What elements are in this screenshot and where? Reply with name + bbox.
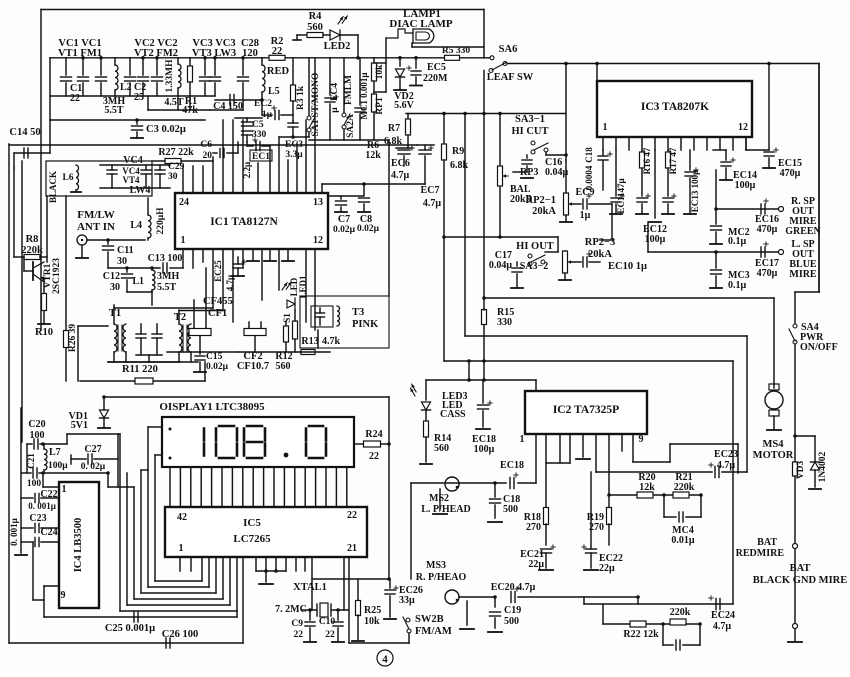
capacitor EC10 1u xyxy=(582,257,584,267)
svg-text:22μ: 22μ xyxy=(599,563,615,574)
capacitor C10 22 xyxy=(337,610,339,620)
svg-text:C3 0.02μ: C3 0.02μ xyxy=(146,124,186,135)
svg-text:270: 270 xyxy=(526,522,541,533)
svg-text:XTAL1: XTAL1 xyxy=(293,582,327,593)
ground IC1 pin stubs xyxy=(247,260,259,262)
svg-text:C24: C24 xyxy=(40,527,57,538)
svg-text:560: 560 xyxy=(434,443,449,454)
wire leaf column lower xyxy=(483,325,485,380)
wire right power bus xyxy=(507,63,819,65)
svg-text:20kA: 20kA xyxy=(532,206,556,217)
wire IC3 pin12 down xyxy=(745,137,747,150)
svg-text:VT4: VT4 xyxy=(122,175,140,185)
svg-text:21: 21 xyxy=(347,543,357,554)
display digit 0 xyxy=(219,425,234,428)
svg-text:R22 12k: R22 12k xyxy=(623,629,659,640)
capacitor EC2 1u xyxy=(274,111,276,120)
svg-text:R24: R24 xyxy=(365,429,382,440)
transformer T3 PINK xyxy=(311,306,333,327)
LED LED1 S1 xyxy=(287,300,295,308)
resistor R24 22 xyxy=(354,443,363,445)
svg-text:22: 22 xyxy=(294,630,304,640)
svg-text:VD3: VD3 xyxy=(796,461,806,480)
svg-text:PINK: PINK xyxy=(352,319,379,330)
svg-text:MS3: MS3 xyxy=(426,560,446,571)
svg-text:L5: L5 xyxy=(268,86,280,97)
resistor R1 47k xyxy=(189,58,191,66)
svg-text:R3 1k: R3 1k xyxy=(296,85,306,110)
svg-text:T1: T1 xyxy=(109,308,121,319)
wire bottom right bus xyxy=(584,603,733,605)
op-amp IC3 TA8207K box xyxy=(597,81,752,137)
resistor R12 560 xyxy=(285,322,287,326)
capacitor EC20 4.7u xyxy=(510,592,512,603)
svg-text:1: 1 xyxy=(520,434,525,445)
svg-text:EC9: EC9 xyxy=(576,187,595,198)
svg-text:22: 22 xyxy=(369,451,379,462)
resistor R19 270 xyxy=(608,495,610,507)
wire c20 to corner xyxy=(43,443,67,445)
wire lamp bottom xyxy=(412,46,484,48)
svg-text:47k: 47k xyxy=(182,105,198,116)
svg-text:BLACK GND MIRE: BLACK GND MIRE xyxy=(753,575,848,586)
svg-text:R25: R25 xyxy=(364,605,381,616)
capacitor C1 22 xyxy=(65,58,67,75)
op-amp IC5 LC7265 box xyxy=(165,507,367,557)
capacitor EC7 4.7u xyxy=(419,149,431,151)
svg-text:C15: C15 xyxy=(206,352,223,362)
svg-text:1: 1 xyxy=(181,235,186,246)
wire display outer box xyxy=(104,396,389,398)
display digit 1 xyxy=(203,429,206,441)
svg-text:R27 22k: R27 22k xyxy=(158,147,194,158)
resistor 220k bottom xyxy=(670,619,686,625)
svg-text:220k: 220k xyxy=(670,607,691,618)
wire ic2 interpin xyxy=(546,462,570,464)
resistor R22 12k xyxy=(630,621,646,627)
svg-text:CF1: CF1 xyxy=(208,308,227,319)
svg-text:FMLM: FMLM xyxy=(344,75,354,105)
capacitor EC13 100u xyxy=(689,150,691,170)
svg-text:EC7: EC7 xyxy=(421,185,440,196)
svg-text:EC24: EC24 xyxy=(711,610,735,621)
wire bat stub xyxy=(794,549,796,623)
page number 4 xyxy=(377,650,393,666)
svg-text:10k: 10k xyxy=(375,64,385,80)
svg-text:1N4002: 1N4002 xyxy=(818,451,828,482)
svg-text:4.7μ: 4.7μ xyxy=(423,198,442,209)
svg-text:33μ: 33μ xyxy=(399,595,415,606)
resistor R20 12k xyxy=(637,492,653,498)
svg-text:REDMIRE: REDMIRE xyxy=(736,548,785,559)
display colon dots xyxy=(169,428,172,431)
svg-text:GREEN: GREEN xyxy=(785,226,821,237)
svg-text:30: 30 xyxy=(110,282,120,293)
svg-text:4.7μ: 4.7μ xyxy=(391,170,410,181)
svg-text:RP3: RP3 xyxy=(520,167,538,178)
resistor R21 220k xyxy=(673,492,689,498)
capacitor EC4 u xyxy=(329,58,331,95)
svg-text:0.02μ: 0.02μ xyxy=(333,225,356,235)
capacitor EC5 220M xyxy=(415,58,417,68)
switch SA3-1 xyxy=(531,141,535,145)
jack BAT BLACK GND xyxy=(793,624,798,629)
svg-text:IC2 TA7325P: IC2 TA7325P xyxy=(553,404,619,416)
svg-text:LEAF SW: LEAF SW xyxy=(487,72,534,83)
filter CF1 xyxy=(189,329,211,336)
diode VD1 5V1 xyxy=(102,395,106,399)
svg-text:4.5T: 4.5T xyxy=(164,97,184,108)
svg-text:BLACK: BLACK xyxy=(48,171,58,203)
svg-text:100μ: 100μ xyxy=(735,180,756,191)
svg-text:9: 9 xyxy=(61,590,66,601)
capacitor C28 120 cap xyxy=(242,58,244,75)
svg-text:24: 24 xyxy=(179,197,189,208)
display digit 8 xyxy=(247,425,262,428)
capacitor VC3 VT3 xyxy=(204,58,206,75)
ground left cluster xyxy=(20,408,22,553)
inductor L1 3MH 5.5T xyxy=(152,270,155,290)
wire IC2 pins xyxy=(535,434,537,483)
wire L6 shield box xyxy=(46,161,152,196)
switch SA4 PWR ON/OFF xyxy=(818,64,820,293)
svg-text:ON/OFF: ON/OFF xyxy=(800,342,838,353)
svg-text:EC10 1μ: EC10 1μ xyxy=(608,261,647,272)
svg-text:R9: R9 xyxy=(452,146,464,157)
wire IC3 pin1 to bus xyxy=(596,64,598,82)
ground IC5 stub xyxy=(256,570,286,572)
svg-text:R26 39: R26 39 xyxy=(68,324,78,352)
svg-text:3.3μ: 3.3μ xyxy=(285,150,303,160)
capacitor C27 0.02u xyxy=(70,455,72,464)
capacitor EC9 1u xyxy=(582,199,584,209)
svg-text:0.02μ: 0.02μ xyxy=(206,362,229,372)
svg-text:C13 100: C13 100 xyxy=(148,253,183,264)
wire hi-cut box xyxy=(406,113,566,115)
svg-text:R10: R10 xyxy=(35,327,53,338)
svg-text:5.5T: 5.5T xyxy=(157,282,177,293)
wire MS2 to xtal bus xyxy=(410,483,412,579)
svg-text:C9: C9 xyxy=(291,619,303,629)
svg-text:12: 12 xyxy=(738,122,748,133)
inductor L2 3MH 5.5T xyxy=(114,58,116,65)
svg-text:L1: L1 xyxy=(132,276,144,287)
capacitor VC2 FM2 xyxy=(156,58,158,75)
capacitor MC3 0.1u xyxy=(715,252,717,268)
svg-text:0.01μ: 0.01μ xyxy=(671,535,695,546)
svg-text:RP2−1: RP2−1 xyxy=(526,195,556,206)
inductor L4 220uH xyxy=(148,215,151,238)
resistor R26 39 xyxy=(65,196,67,330)
svg-text:C29: C29 xyxy=(168,162,185,172)
capacitor T2 tune cap xyxy=(152,333,162,335)
wire nested routing bundle xyxy=(119,434,121,611)
capacitor MC2 0.1u xyxy=(715,209,717,224)
motor MS4 xyxy=(773,298,775,388)
svg-text:BAT: BAT xyxy=(790,563,811,574)
svg-text:220M: 220M xyxy=(423,73,448,84)
wire IC1 bottom pins xyxy=(192,249,194,268)
svg-text:R16 47: R16 47 xyxy=(642,147,652,174)
wire bus y361 xyxy=(443,237,445,361)
capacitor EC24 4.7u xyxy=(715,599,717,610)
wire IF bottom bus xyxy=(78,325,108,327)
resistor R10 xyxy=(43,282,45,294)
svg-text:L7: L7 xyxy=(49,447,61,458)
capacitor EC1 2.2u xyxy=(255,142,257,151)
svg-text:BAT: BAT xyxy=(757,537,777,548)
svg-text:0.04μ: 0.04μ xyxy=(545,167,569,178)
svg-text:EC6: EC6 xyxy=(391,158,410,169)
wire bottom frame xyxy=(9,642,243,644)
svg-text:10k: 10k xyxy=(364,616,380,627)
svg-text:13: 13 xyxy=(313,197,323,208)
svg-text:1: 1 xyxy=(603,122,608,133)
svg-text:12k: 12k xyxy=(365,150,381,161)
svg-text:C21: C21 xyxy=(26,453,36,469)
svg-text:IC3 TA8207K: IC3 TA8207K xyxy=(641,101,709,113)
transformer T3 PINK unit box xyxy=(300,296,389,348)
op-amp IC4 LB3500 box xyxy=(59,482,99,608)
capacitor C4 150 xyxy=(215,99,262,101)
capacitor EC14 100u xyxy=(725,150,727,160)
capacitor EC15 470u xyxy=(768,64,770,151)
svg-text:0.1μ: 0.1μ xyxy=(728,236,747,247)
wire IC1 top pins xyxy=(182,166,184,193)
svg-text:CASS: CASS xyxy=(440,409,466,420)
wire R6 to T3 box column xyxy=(374,139,389,141)
svg-text:22μ: 22μ xyxy=(528,559,544,570)
svg-text:RED: RED xyxy=(267,66,290,77)
capacitor C6 20 xyxy=(219,149,221,158)
display DISPLAY1 LTC38095 box xyxy=(162,417,354,467)
svg-text:MS2: MS2 xyxy=(429,493,449,504)
wire left frame verticals xyxy=(8,144,10,643)
wire R22 row xyxy=(602,604,604,624)
svg-text:1.33MH: 1.33MH xyxy=(165,59,175,93)
svg-text:20kA: 20kA xyxy=(588,249,612,260)
svg-text:12: 12 xyxy=(313,235,323,246)
svg-text:CF10.7: CF10.7 xyxy=(237,361,269,372)
lamp LAMP1 symbol xyxy=(413,29,434,43)
wire main VC bus xyxy=(50,57,490,59)
op-amp IC2 TA7325P box xyxy=(525,391,647,434)
svg-text:T3: T3 xyxy=(352,307,364,318)
svg-text:C12: C12 xyxy=(103,271,120,282)
capacitor EC3 3.3u xyxy=(288,122,298,124)
svg-text:ST/MONO: ST/MONO xyxy=(311,73,321,118)
wire L.SP line xyxy=(648,251,778,253)
wire R.SP line xyxy=(716,208,778,210)
capacitor MC4 0.01u xyxy=(663,495,665,517)
svg-text:R17 47: R17 47 xyxy=(668,147,678,174)
svg-text:22: 22 xyxy=(70,93,80,104)
svg-text:μ: μ xyxy=(330,107,340,113)
capacitor C18 500 xyxy=(494,483,496,497)
svg-text:20: 20 xyxy=(203,151,213,161)
svg-text:R5 330: R5 330 xyxy=(442,46,470,56)
capacitor EC17 470u xyxy=(760,247,762,257)
svg-text:LC7265: LC7265 xyxy=(233,533,271,545)
svg-text:470μ: 470μ xyxy=(757,224,778,235)
wire IC5 bottom stubs xyxy=(179,557,181,571)
wire display pins xyxy=(169,467,171,507)
svg-text:500: 500 xyxy=(503,504,518,515)
svg-text:EC2: EC2 xyxy=(254,99,272,109)
ground IC2 pin xyxy=(576,458,590,460)
svg-text:LED2: LED2 xyxy=(324,41,351,52)
svg-text:SW2B: SW2B xyxy=(415,614,444,625)
svg-text:DIAC LAMP: DIAC LAMP xyxy=(389,18,453,30)
svg-text:330: 330 xyxy=(497,317,512,328)
svg-text:5.6V: 5.6V xyxy=(394,100,415,111)
jack MS2 xyxy=(445,477,459,491)
wire R20 row xyxy=(609,494,701,496)
svg-text:22: 22 xyxy=(325,630,335,640)
pot RP2-3 pot xyxy=(563,251,568,273)
svg-text:EC18: EC18 xyxy=(500,460,524,471)
svg-text:EC4: EC4 xyxy=(330,83,340,101)
svg-text:42: 42 xyxy=(177,512,187,523)
capacitor EC22 22u xyxy=(586,548,597,550)
capacitor EC18 100u xyxy=(482,380,484,403)
svg-text:C4 150: C4 150 xyxy=(213,101,243,112)
switch SA3-2 xyxy=(528,254,532,258)
capacitor C18 0.0004 xyxy=(602,150,604,155)
wire C3 node line xyxy=(50,119,205,121)
svg-text:100: 100 xyxy=(27,479,42,489)
resistor R15 330 xyxy=(482,310,487,325)
capacitor C25 0.001u wire xyxy=(44,616,237,618)
LED LED2 xyxy=(330,30,340,40)
capacitor EC25 4.7u xyxy=(233,263,243,265)
svg-text:R13: R13 xyxy=(301,336,318,347)
capacitor EC23 4.7u xyxy=(596,471,712,473)
capacitor C16 0.04u xyxy=(526,155,528,158)
capacitor C12 30 xyxy=(126,268,128,272)
inductor 1.33MH 4.5T xyxy=(177,58,179,64)
svg-text:R8: R8 xyxy=(26,234,39,245)
svg-text:9: 9 xyxy=(639,434,644,445)
jack L.SP OUT BLUE MIRE xyxy=(779,250,784,255)
svg-text:1: 1 xyxy=(62,484,67,495)
svg-text:0. 001μ: 0. 001μ xyxy=(28,501,56,511)
svg-text:C23: C23 xyxy=(29,513,46,524)
capacitor EC26 33u xyxy=(389,579,391,588)
capacitor C5 330 xyxy=(242,121,253,123)
svg-text:CF455: CF455 xyxy=(203,296,233,307)
svg-text:EC25: EC25 xyxy=(213,260,223,282)
transistor VTR1 2SC1923 xyxy=(32,262,34,280)
svg-text:SA2A: SA2A xyxy=(346,114,356,138)
svg-text:MS4: MS4 xyxy=(763,439,785,450)
capacitor C2 25 xyxy=(129,58,131,75)
svg-text:LW4: LW4 xyxy=(130,185,151,196)
svg-text:22: 22 xyxy=(347,510,357,521)
resistor R3 1k xyxy=(292,58,294,85)
switch SA2A xyxy=(342,113,346,117)
svg-text:L6: L6 xyxy=(62,173,73,183)
capacitor C9 22 xyxy=(309,610,311,620)
svg-text:R4: R4 xyxy=(309,11,323,22)
svg-text:EC5: EC5 xyxy=(427,62,446,73)
wire IC4 pin9 loop xyxy=(44,585,59,587)
svg-text:12k: 12k xyxy=(639,482,655,493)
svg-text:EC23: EC23 xyxy=(714,449,738,460)
svg-text:R. P/HEAO: R. P/HEAO xyxy=(416,572,467,583)
resistor R9 6.8k xyxy=(443,114,445,145)
svg-text:5V1: 5V1 xyxy=(71,420,88,431)
capacitor C3 0.02u xyxy=(136,120,138,124)
svg-text:330: 330 xyxy=(252,130,267,140)
svg-text:EC1: EC1 xyxy=(252,152,270,162)
capacitor VC2 VT2 xyxy=(142,58,144,75)
capacitor VC3 LW3 xyxy=(214,58,216,75)
svg-text:FM/AM: FM/AM xyxy=(415,626,452,637)
svg-text:RP2−3: RP2−3 xyxy=(585,237,615,248)
filter CF2 xyxy=(244,329,266,336)
jack FM/LW ANT xyxy=(77,235,87,245)
svg-text:SA6: SA6 xyxy=(499,44,518,55)
svg-text:0.1μ: 0.1μ xyxy=(728,280,747,291)
capacitor EC21 22u xyxy=(541,548,552,550)
capacitor EC18 coupling xyxy=(509,478,511,489)
resistor R16 47 xyxy=(641,150,643,152)
display digit 0 second xyxy=(309,425,323,428)
jack R.SP OUT MIRE GREEN xyxy=(779,207,784,212)
wire VC lower bus xyxy=(50,95,215,97)
svg-text:C11: C11 xyxy=(117,245,134,256)
svg-text:SA3−2: SA3−2 xyxy=(520,261,548,272)
svg-text:R7: R7 xyxy=(388,123,400,134)
resistor R7 6.8k xyxy=(407,114,409,120)
svg-text:EC20 4.7μ: EC20 4.7μ xyxy=(491,582,536,593)
svg-text:C18: C18 xyxy=(584,147,594,163)
svg-text:0. 001μ: 0. 001μ xyxy=(9,518,19,546)
diode VD2 5.6V xyxy=(399,58,401,66)
svg-text:C25 0.001μ: C25 0.001μ xyxy=(105,623,155,634)
switch SW2B FM/AM xyxy=(406,618,410,622)
capacitor C17 0.04u xyxy=(516,262,518,266)
svg-text:560: 560 xyxy=(276,361,291,372)
svg-text:FM/LW: FM/LW xyxy=(77,209,115,221)
wire top frame xyxy=(41,9,484,11)
wire display left hooks xyxy=(118,433,120,435)
resistor R25 10k xyxy=(357,579,359,601)
svg-text:4.7k: 4.7k xyxy=(322,336,341,347)
wire IC2 feed xyxy=(426,379,536,381)
capacitor C13 100 xyxy=(108,267,160,269)
svg-text:T2: T2 xyxy=(174,312,186,323)
svg-text:1μ: 1μ xyxy=(580,210,591,221)
svg-text:C14 50: C14 50 xyxy=(9,127,40,138)
capacitor C19 500 xyxy=(494,597,496,607)
svg-text:500: 500 xyxy=(504,616,519,627)
capacitor T1 tune cap xyxy=(136,333,146,335)
capacitor VC1 FM1 xyxy=(100,58,102,75)
wire HI OUT line xyxy=(444,236,558,238)
resistor R14 560 xyxy=(424,421,429,437)
wire EC12 to LSP xyxy=(647,222,649,252)
display decimal point xyxy=(284,453,289,458)
switch LEAF SW xyxy=(503,62,507,66)
wire pin13 right xyxy=(322,183,425,185)
svg-text:C26 100: C26 100 xyxy=(162,629,198,640)
svg-text:220k: 220k xyxy=(674,482,695,493)
svg-text:100μ: 100μ xyxy=(48,461,68,471)
svg-text:HI OUT: HI OUT xyxy=(516,241,554,252)
resistor R17 47 xyxy=(667,150,669,152)
